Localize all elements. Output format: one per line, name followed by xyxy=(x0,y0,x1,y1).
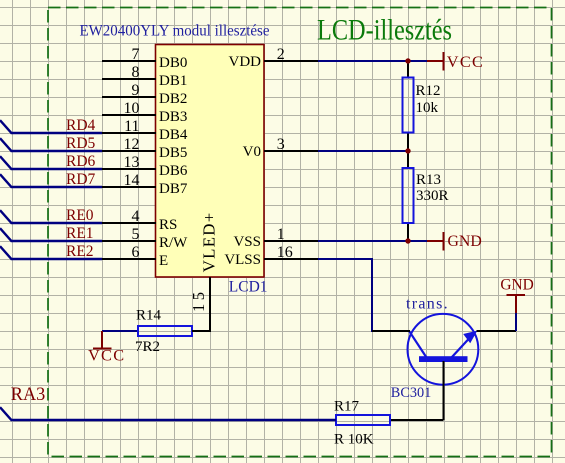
resistor R12 xyxy=(403,78,414,133)
svg-text:12: 12 xyxy=(124,136,140,153)
pin 15 VLED+ stub xyxy=(209,277,211,331)
svg-text:DB5: DB5 xyxy=(159,145,187,161)
wire R12 leads xyxy=(407,61,409,78)
svg-text:trans.: trans. xyxy=(406,295,449,312)
svg-text:13: 13 xyxy=(124,154,140,171)
svg-text:V0: V0 xyxy=(243,144,261,160)
wire base to R17 xyxy=(390,419,444,421)
svg-text:9: 9 xyxy=(132,82,140,99)
junction VSS xyxy=(405,238,410,243)
svg-text:14: 14 xyxy=(124,172,140,189)
resistor R17 xyxy=(336,415,390,425)
svg-text:R14: R14 xyxy=(136,308,162,324)
power VCC (bottom) xyxy=(93,331,112,349)
wire VSS net xyxy=(318,240,427,242)
svg-text:DB4: DB4 xyxy=(159,127,188,143)
svg-text:GND: GND xyxy=(500,276,533,293)
svg-text:E: E xyxy=(159,253,168,269)
svg-text:RE1: RE1 xyxy=(66,225,94,242)
svg-text:5: 5 xyxy=(132,226,140,243)
svg-text:DB3: DB3 xyxy=(159,109,187,125)
wire emitter to GND xyxy=(515,313,517,331)
svg-text:330R: 330R xyxy=(416,188,449,204)
pin 7 DB0 stub xyxy=(102,60,156,62)
power VCC (top) xyxy=(427,52,444,71)
svg-text:10k: 10k xyxy=(416,100,439,116)
svg-text:RD7: RD7 xyxy=(66,171,96,188)
svg-text:VCC: VCC xyxy=(447,52,484,71)
svg-text:DB2: DB2 xyxy=(159,91,187,107)
svg-text:16: 16 xyxy=(277,244,293,261)
svg-text:LCD1: LCD1 xyxy=(229,279,268,296)
wire V0 net xyxy=(318,150,408,152)
svg-text:GND: GND xyxy=(448,233,482,250)
pin 10 DB3 stub xyxy=(102,114,156,116)
wire net RE0 xyxy=(0,210,102,223)
svg-text:DB1: DB1 xyxy=(159,73,187,89)
pin 5 R/W stub xyxy=(102,240,156,242)
pin 3 V0 stub xyxy=(264,150,318,152)
pin 14 DB7 stub xyxy=(102,186,156,188)
transistor emitter pin xyxy=(477,330,517,332)
svg-text:RD6: RD6 xyxy=(66,153,96,170)
wire R13 leads xyxy=(407,151,409,168)
svg-text:RD4: RD4 xyxy=(66,117,96,134)
svg-text:EW20400YLY modul illesztése: EW20400YLY modul illesztése xyxy=(80,22,270,39)
svg-text:7: 7 xyxy=(132,46,140,63)
svg-text:11: 11 xyxy=(124,118,139,135)
svg-text:BC301: BC301 xyxy=(391,385,432,401)
wire VCC to R14 xyxy=(102,330,138,332)
transistor collector pin xyxy=(372,330,410,332)
wire net RA3 xyxy=(0,407,336,420)
svg-text:2: 2 xyxy=(277,46,285,63)
LCD module U-LCD1 body xyxy=(156,45,265,278)
pin 8 DB1 stub xyxy=(102,78,156,80)
wire net RD5 xyxy=(0,138,102,151)
svg-text:R 10K: R 10K xyxy=(334,432,374,448)
svg-text:DB6: DB6 xyxy=(159,163,188,179)
wire net RD4 xyxy=(0,120,102,133)
wire VLSS net xyxy=(318,259,410,331)
svg-text:1: 1 xyxy=(277,226,285,243)
svg-text:VLSS: VLSS xyxy=(224,252,261,268)
svg-text:DB0: DB0 xyxy=(159,55,187,71)
svg-text:VLED+: VLED+ xyxy=(199,213,218,273)
wire VDD net xyxy=(318,60,427,62)
junction V0 xyxy=(405,148,410,153)
svg-text:RE2: RE2 xyxy=(66,243,94,260)
pin 11 DB4 stub xyxy=(102,132,156,134)
resistor R14 xyxy=(138,326,192,336)
resistor R13 xyxy=(403,168,414,223)
svg-text:LCD-illesztés: LCD-illesztés xyxy=(317,14,452,47)
wire net RE2 xyxy=(0,246,102,259)
svg-text:VDD: VDD xyxy=(229,54,262,70)
transistor base pin xyxy=(443,361,445,420)
svg-text:R17: R17 xyxy=(334,399,360,415)
pin 4 RS stub xyxy=(102,222,156,224)
svg-text:DB7: DB7 xyxy=(159,181,188,197)
svg-text:R13: R13 xyxy=(416,172,441,188)
svg-text:VCC: VCC xyxy=(88,346,125,365)
svg-text:7R2: 7R2 xyxy=(135,339,160,355)
transistor Q1 BC301 xyxy=(408,314,479,385)
wire net RD7 xyxy=(0,174,102,187)
pin 16 VLSS stub xyxy=(264,258,318,260)
svg-text:RD5: RD5 xyxy=(66,135,96,152)
svg-text:R/W: R/W xyxy=(159,235,188,251)
wire net RD6 xyxy=(0,156,102,169)
svg-text:6: 6 xyxy=(132,244,140,261)
svg-text:VSS: VSS xyxy=(233,234,261,250)
pin 13 DB6 stub xyxy=(102,168,156,170)
power GND (transistor) xyxy=(507,295,526,313)
pin 6 E stub xyxy=(102,258,156,260)
svg-text:RA3: RA3 xyxy=(11,384,46,405)
power GND (right) xyxy=(427,232,444,251)
pin 12 DB5 stub xyxy=(102,150,156,152)
svg-text:8: 8 xyxy=(132,64,140,81)
svg-text:RE0: RE0 xyxy=(66,207,94,224)
svg-text:4: 4 xyxy=(132,208,140,225)
wire net RE1 xyxy=(0,228,102,241)
svg-text:RS: RS xyxy=(159,217,177,233)
pin 9 DB2 stub xyxy=(102,96,156,98)
svg-text:3: 3 xyxy=(277,136,285,153)
svg-text:R12: R12 xyxy=(416,83,441,99)
pin 2 VDD stub xyxy=(264,60,318,62)
junction VDD xyxy=(405,58,410,63)
wire R14 to pin15 xyxy=(192,277,210,331)
svg-text:10: 10 xyxy=(124,100,140,117)
pin 1 VSS stub xyxy=(264,240,318,242)
